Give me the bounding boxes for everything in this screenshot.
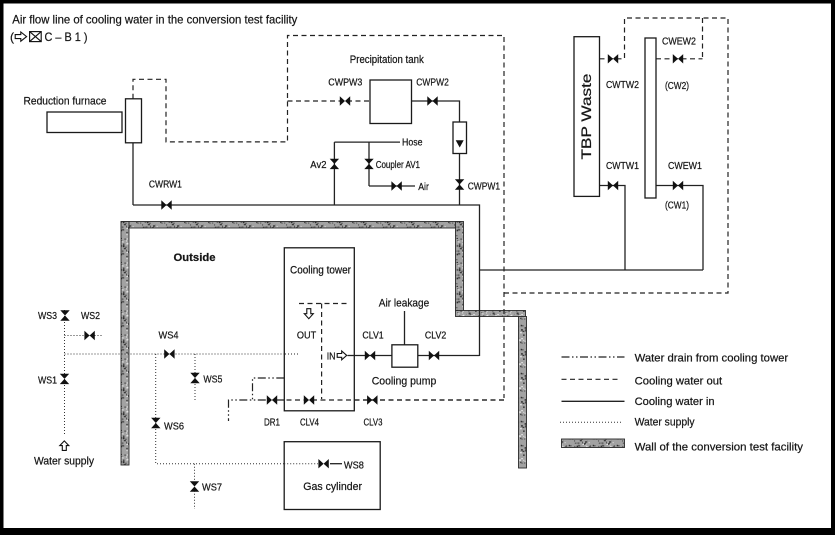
svg-text:WS1: WS1 [38,376,57,387]
svg-text:CLV1: CLV1 [362,330,384,341]
svg-text:(CW1): (CW1) [665,201,689,212]
svg-text:CWPW2: CWPW2 [416,78,449,89]
svg-text:Air: Air [418,182,429,193]
svg-text:Air leakage: Air leakage [379,297,429,309]
svg-text:Reduction furnace: Reduction furnace [24,96,107,108]
svg-text:WS8: WS8 [344,460,364,471]
svg-text:CLV3: CLV3 [364,417,383,428]
svg-text:CLV2: CLV2 [425,330,447,341]
svg-text:Air flow line of cooling water: Air flow line of cooling water in the co… [12,12,297,26]
svg-text:WS7: WS7 [202,483,222,494]
svg-text:OUT: OUT [297,330,316,341]
svg-text:CWPW1: CWPW1 [468,182,501,193]
svg-text:WS2: WS2 [81,311,100,322]
svg-text:Cooling pump: Cooling pump [372,376,437,388]
svg-text:IN: IN [327,351,336,362]
svg-text:Hose: Hose [402,138,423,149]
svg-text:DR1: DR1 [264,417,280,428]
svg-text:(CW2): (CW2) [665,81,689,92]
svg-text:WS3: WS3 [38,311,57,322]
svg-text:(: ( [10,30,14,44]
svg-text:CWRW1: CWRW1 [149,180,182,191]
svg-text:Gas cylinder: Gas cylinder [303,481,362,493]
svg-text:Precipitation tank: Precipitation tank [350,54,424,66]
svg-text:Av2: Av2 [310,160,327,171]
svg-text:CWTW2: CWTW2 [606,80,639,91]
svg-text:Water supply: Water supply [34,456,94,468]
svg-text:Cooling tower: Cooling tower [290,264,351,276]
svg-text:Cooling water in: Cooling water in [635,396,715,408]
svg-text:Coupler AV1: Coupler AV1 [376,160,421,171]
svg-text:CLV4: CLV4 [300,417,319,428]
svg-text:WS6: WS6 [164,422,184,433]
svg-text:CWEW2: CWEW2 [662,37,696,48]
svg-text:WS4: WS4 [159,331,179,342]
svg-text:CWPW3: CWPW3 [328,78,362,89]
svg-text:CWTW1: CWTW1 [606,161,639,172]
svg-text:TBP Waste: TBP Waste [579,74,594,160]
svg-text:CWEW1: CWEW1 [668,161,702,172]
svg-text:Water drain from cooling tower: Water drain from cooling tower [635,353,789,365]
svg-text:Outside: Outside [174,252,216,264]
svg-text:C – B 1 ): C – B 1 ) [45,30,88,44]
svg-text:Cooling water out: Cooling water out [635,375,723,387]
svg-text:WS5: WS5 [203,375,222,386]
svg-text:Wall of the conversion test fa: Wall of the conversion test facility [635,442,804,454]
svg-text:Water supply: Water supply [635,416,695,428]
